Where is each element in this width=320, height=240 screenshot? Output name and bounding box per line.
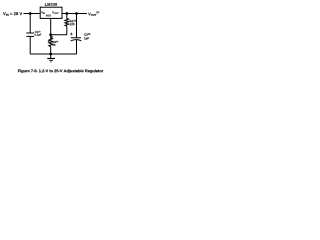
- wire output: [62, 13, 87, 15]
- node output junction B: [75, 12, 78, 15]
- wire ground rail: [30, 53, 76, 55]
- label C1 0.1uF: [35, 31, 42, 36]
- label LM338: [45, 3, 57, 6]
- potentiometer R2: [48, 35, 53, 54]
- label R2 5k: [53, 41, 58, 46]
- pin label ADJ: [46, 15, 51, 17]
- capacitor C2: [71, 14, 82, 55]
- node input junction: [29, 12, 32, 15]
- resistor R1: [65, 14, 69, 35]
- node ADJ junction: [49, 33, 52, 36]
- wire ADJ: [51, 18, 67, 34]
- label VOUT: [88, 11, 99, 16]
- regulator U1 LM338: [40, 7, 62, 18]
- wire input: [24, 13, 41, 15]
- label C2 plus sign: [70, 33, 73, 36]
- capacitor C1: [26, 14, 34, 55]
- node ground junction: [49, 53, 52, 56]
- label VIN = 28V: [3, 12, 22, 16]
- node output junction A: [65, 12, 68, 15]
- pin label VOUT: [52, 11, 58, 14]
- pin label VIN: [41, 11, 45, 14]
- label R1 120: [70, 20, 76, 25]
- caption: [18, 69, 103, 73]
- ground: [47, 54, 55, 62]
- label C2 1uF: [84, 33, 90, 40]
